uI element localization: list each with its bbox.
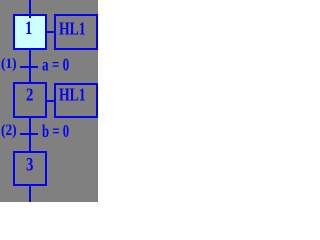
transition T1 condition "a = 0" [42, 56, 69, 74]
transition T2 condition "b = 0" [42, 122, 69, 140]
action box HL1 (lower) [54, 83, 98, 118]
wire: connector step2 to HL1 [46, 100, 55, 102]
transition T2 number "(2)" [1, 122, 17, 138]
wire: vertical spine [29, 0, 31, 202]
step S2 label "2" [26, 86, 33, 104]
transition T2 bar [20, 133, 38, 135]
step S3 box [13, 151, 47, 186]
step S3 label "3" [26, 155, 33, 174]
wire: connector step1 to HL1 [46, 31, 55, 33]
step S1 box (active, cyan fill) [13, 14, 47, 50]
action label HL1 (lower) [59, 86, 86, 104]
transition T1 bar [20, 66, 38, 68]
transition T1 number "(1)" [1, 56, 17, 71]
action box HL1 (upper) [54, 14, 98, 50]
action label HL1 (upper) [59, 20, 86, 38]
step S1 label "1" [25, 18, 32, 37]
step S2 box [13, 82, 47, 118]
wire stub inside step S1 [29, 16, 31, 18]
